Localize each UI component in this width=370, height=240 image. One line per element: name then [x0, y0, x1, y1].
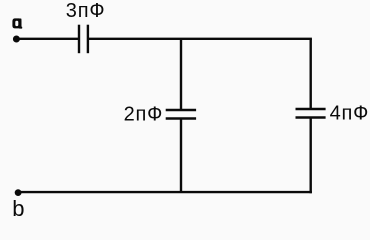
node a (terminal dot) — [13, 36, 20, 43]
wire middle vertical upper (node junction to C2 top plate) — [180, 39, 182, 110]
svg-text:2пФ: 2пФ — [124, 104, 164, 126]
capacitor C1 right plate — [87, 25, 89, 54]
svg-text:4пФ: 4пФ — [330, 103, 370, 125]
wire top-left from terminal a to C1 left plate — [17, 38, 80, 40]
wire right vertical lower (C3 bottom plate to bottom-right corner) — [310, 118, 312, 194]
capacitor C3 bottom plate — [296, 116, 326, 118]
wire top from C1 right plate to top-right corner — [88, 38, 312, 40]
wire middle vertical lower (C2 bottom plate to bottom wire) — [180, 119, 182, 193]
wire bottom from terminal b to bottom-right corner — [18, 191, 312, 193]
svg-text:3пФ: 3пФ — [66, 0, 106, 22]
node a label (boxy single-story a) — [12, 18, 22, 28]
capacitor C2 bottom plate — [166, 117, 196, 119]
capacitor C3 top plate — [296, 108, 326, 110]
node b (terminal dot) — [15, 189, 22, 196]
capacitor C2 top plate — [166, 109, 196, 111]
svg-text:b: b — [12, 196, 24, 221]
capacitor C1 left plate — [78, 25, 80, 54]
wire right vertical upper (top-right corner to C3 top plate) — [310, 39, 312, 109]
